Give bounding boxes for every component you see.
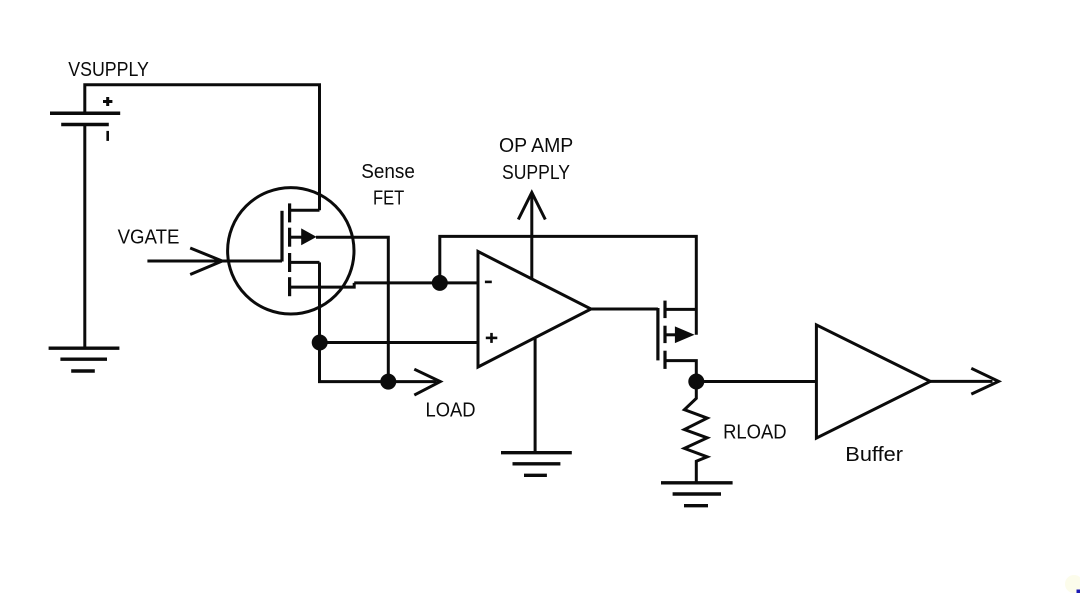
Sense FET drain stub bbox=[290, 209, 320, 212]
svg-text:VGATE: VGATE bbox=[118, 225, 180, 248]
transistor Q2 gate plate bbox=[656, 308, 659, 360]
battery + polarity mark bbox=[103, 97, 112, 106]
op-amp + input mark bbox=[486, 333, 498, 343]
buffer output arrowhead bbox=[971, 368, 998, 394]
Sense FET kelvin source stub bbox=[290, 261, 320, 264]
battery V1 positive plate bbox=[50, 112, 120, 116]
transistor Q2 source stub bbox=[665, 361, 696, 382]
Sense FET gate plate bbox=[280, 211, 283, 262]
junction dot (LOAD) bbox=[380, 374, 396, 390]
transistor Q2 drain stub bbox=[665, 308, 696, 311]
artifact smudge bottom-right bbox=[1065, 575, 1080, 593]
artifact mark bottom-right bbox=[1077, 590, 1080, 593]
svg-text:OP AMP: OP AMP bbox=[499, 134, 573, 157]
junction dot (load sense / + input) bbox=[312, 335, 328, 351]
svg-text:RLOAD: RLOAD bbox=[723, 420, 787, 443]
svg-text:VSUPPLY: VSUPPLY bbox=[68, 58, 149, 81]
svg-text:Buffer: Buffer bbox=[845, 443, 903, 466]
Sense FET channel (dashed bar) bbox=[288, 203, 291, 296]
ground (battery) bbox=[49, 348, 120, 371]
LOAD arrowhead bbox=[414, 369, 440, 395]
svg-text:FET: FET bbox=[373, 187, 405, 210]
svg-text:SUPPLY: SUPPLY bbox=[502, 161, 570, 184]
wire sense source to - input bbox=[354, 281, 478, 284]
wire op-amp output to Q2 gate bbox=[591, 308, 658, 311]
wire VGATE to Sense FET gate bbox=[147, 260, 282, 263]
battery - polarity mark (vertical bar) bbox=[106, 131, 109, 141]
transistor Q2 body arrow bbox=[665, 333, 678, 336]
buffer output wire bbox=[930, 380, 992, 383]
op-amp supply arrow bbox=[530, 193, 533, 279]
op-amp - input mark bbox=[485, 281, 492, 284]
wire VSUPPLY rail from battery to Sense FET drain bbox=[85, 85, 320, 211]
buffer U2 bbox=[816, 325, 930, 438]
wire sense node to Q2 drain bbox=[440, 236, 697, 334]
transistor Q2 channel (segmented bar) bbox=[663, 301, 666, 369]
junction dot (sense node at - input) bbox=[432, 275, 448, 291]
arrowhead on VGATE wire bbox=[190, 248, 222, 275]
Sense FET main source stub with arrow bbox=[290, 236, 303, 239]
svg-text:Sense: Sense bbox=[361, 160, 415, 183]
svg-text:LOAD: LOAD bbox=[426, 399, 476, 422]
wire sense node to buffer input bbox=[696, 380, 816, 383]
Sense FET body circle bbox=[228, 188, 354, 314]
wire + input tap bbox=[320, 341, 478, 344]
op-amp U1 bbox=[478, 252, 591, 368]
junction dot (RLOAD / buffer node) bbox=[688, 374, 704, 390]
resistor RLOAD bbox=[684, 382, 707, 483]
ground (RLOAD) bbox=[661, 483, 733, 506]
wire kelvin source down to LOAD rail bbox=[320, 262, 389, 381]
ground (op-amp) bbox=[534, 338, 537, 453]
wire main source to LOAD junction bbox=[316, 237, 388, 381]
battery V1 negative plate bbox=[61, 123, 109, 127]
LOAD arrow wire bbox=[388, 380, 436, 383]
Sense FET sense source stub with jog bbox=[290, 283, 355, 287]
wire battery negative to ground bbox=[83, 125, 86, 349]
